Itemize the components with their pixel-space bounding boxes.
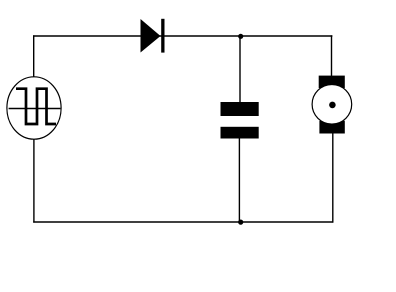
square-wave source G1: waveform	[16, 89, 56, 124]
diode D1: cathode bar	[161, 19, 164, 53]
motor M1: top brush block	[319, 76, 345, 89]
wire right branch lower (motor bottom down to bottom rail)	[332, 133, 334, 223]
wire left branch upper (top rail down to source top)	[33, 35, 35, 77]
node A (top junction dot)	[238, 34, 243, 39]
wire top rail (source to diode to node A to top-right corner)	[33, 35, 332, 37]
wire bottom rail (bottom-left corner to node B to bottom-right corner)	[33, 221, 333, 223]
capacitor C1: top plate	[221, 102, 259, 116]
wire middle branch upper (node A down to capacitor top plate)	[239, 36, 241, 103]
wire left branch lower (source bottom down to bottom rail)	[33, 139, 35, 223]
motor M1: center dot	[329, 102, 336, 109]
diode D1: anode triangle	[141, 19, 161, 53]
capacitor C1: bottom plate	[221, 127, 259, 139]
square-wave source G1: axis line	[9, 108, 61, 110]
wire right branch upper (top rail down to motor top)	[331, 35, 333, 77]
node B (bottom junction dot)	[238, 220, 243, 225]
motor M1: bottom brush block	[319, 121, 344, 134]
motor M1: body circle	[312, 85, 352, 125]
square-wave source G1: body circle	[7, 77, 61, 139]
wire middle branch lower (capacitor bottom plate down to node B)	[238, 138, 240, 223]
